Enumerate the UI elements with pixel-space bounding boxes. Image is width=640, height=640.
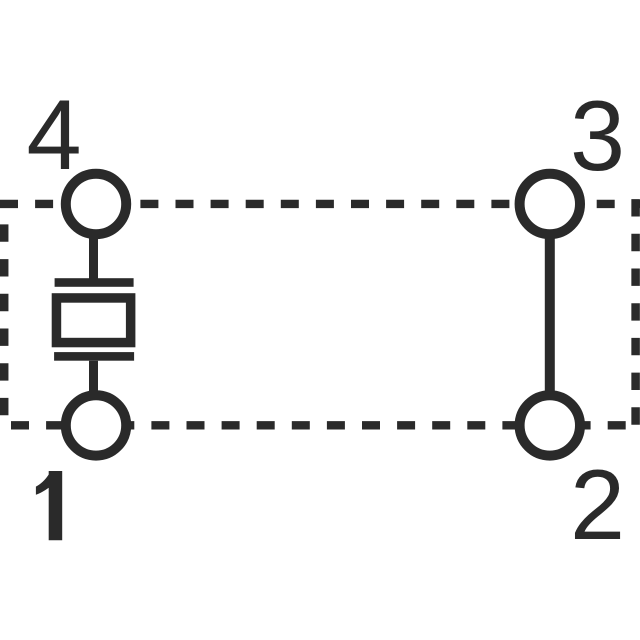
crystal Y1 body [56,298,130,343]
package outline left (dashed) [0,224,8,421]
svg-text:4: 4 [27,79,82,190]
crystal Y1 top plate [55,278,134,287]
wire pin3 to pin2 [545,204,555,425]
package outline right (dashed) [631,199,640,429]
crystal Y1 bottom plate [54,352,134,361]
wire crystal to pin1 [89,361,98,426]
svg-text:2: 2 [570,449,625,560]
pin 3 terminal [520,174,580,234]
wire pin4 to crystal [89,204,98,279]
pin label 1 [36,471,62,540]
package outline bottom (dashed) [11,421,640,429]
pin 4 terminal [66,174,126,234]
pin 2 terminal [520,395,580,455]
package outline top (dashed) [0,200,640,208]
pin 1 terminal [66,395,126,455]
svg-text:3: 3 [570,80,625,191]
